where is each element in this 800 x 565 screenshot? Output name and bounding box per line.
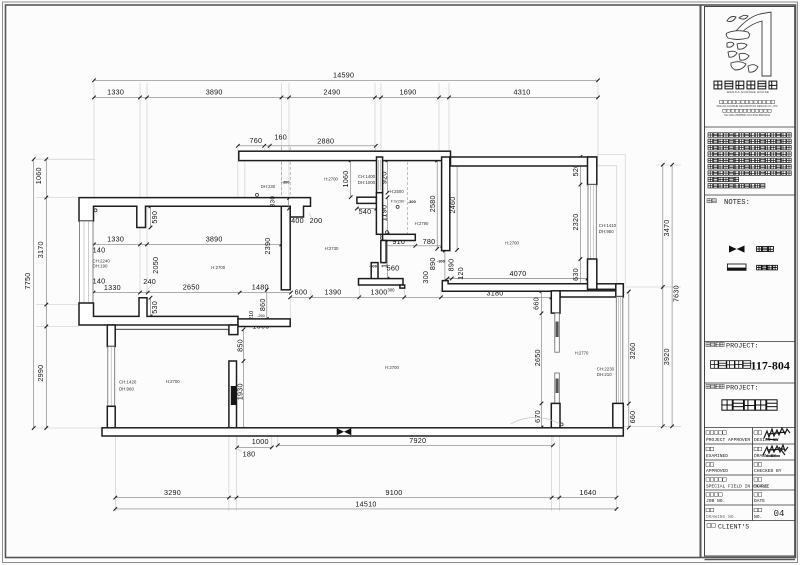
svg-text:7630: 7630 (672, 285, 681, 302)
svg-text:APPROVED: APPROVED (706, 468, 728, 474)
svg-text:3290: 3290 (164, 488, 181, 497)
svg-text:EXAMINED: EXAMINED (706, 453, 728, 459)
svg-text:4310: 4310 (514, 87, 531, 96)
svg-text:PROJECT:: PROJECT: (726, 385, 759, 393)
svg-text:1300: 1300 (371, 288, 388, 297)
svg-text:330: 330 (270, 196, 277, 207)
svg-text:530: 530 (150, 301, 159, 314)
svg-text:TEL:0511-85085551 FAX:0511-85: TEL:0511-85085551 FAX:0511-85091234 (724, 114, 771, 117)
svg-text:04: 04 (774, 509, 785, 519)
svg-text:H:2770: H:2770 (575, 350, 589, 355)
svg-text:CH:2230: CH:2230 (597, 367, 615, 372)
svg-text:560: 560 (387, 264, 400, 273)
svg-text:760: 760 (250, 136, 263, 145)
svg-text:H:2700: H:2700 (385, 365, 399, 370)
svg-text:890: 890 (428, 257, 437, 270)
svg-text:200: 200 (310, 216, 323, 225)
svg-text:H:2700: H:2700 (166, 379, 180, 384)
svg-text:-300: -300 (437, 259, 446, 264)
svg-text:CH:1410: CH:1410 (599, 223, 617, 228)
svg-text:540: 540 (359, 207, 372, 216)
svg-text:140: 140 (93, 246, 106, 255)
svg-text:660: 660 (532, 297, 541, 310)
svg-text:3470: 3470 (662, 220, 671, 237)
svg-text:180: 180 (243, 449, 256, 458)
svg-text:2990: 2990 (36, 365, 45, 382)
svg-text:890: 890 (447, 259, 456, 272)
svg-text:240: 240 (143, 277, 156, 286)
svg-text:660: 660 (628, 411, 637, 424)
svg-text:WANJIA GOODHE DECORATION DESIG: WANJIA GOODHE DECORATION DESIGN CO.,LTD (716, 104, 777, 108)
svg-text:117-804: 117-804 (751, 359, 790, 373)
svg-text:H:2500: H:2500 (390, 189, 404, 194)
svg-text:9100: 9100 (386, 488, 403, 497)
svg-text:DH:230: DH:230 (261, 184, 276, 189)
svg-text:-300: -300 (408, 199, 417, 204)
svg-text:3890: 3890 (206, 87, 223, 96)
svg-text:120: 120 (456, 267, 465, 280)
svg-text:300: 300 (421, 271, 430, 284)
svg-text:1000: 1000 (252, 437, 269, 446)
svg-text:H:2700: H:2700 (211, 265, 225, 270)
svg-text:1640: 1640 (580, 488, 597, 497)
svg-text:CH:1420: CH:1420 (119, 380, 137, 385)
svg-text:2490: 2490 (324, 87, 341, 96)
svg-text:300: 300 (388, 287, 396, 292)
svg-text:3260: 3260 (628, 343, 637, 360)
svg-text:1330: 1330 (107, 234, 124, 243)
svg-text:140: 140 (93, 277, 106, 286)
svg-text:DH:960: DH:960 (119, 387, 134, 392)
svg-text:DH:210: DH:210 (597, 372, 612, 377)
svg-text:2050: 2050 (151, 257, 160, 274)
svg-text:F:0(290: F:0(290 (391, 198, 406, 203)
svg-text:1690: 1690 (400, 87, 417, 96)
svg-text:-260: -260 (257, 314, 265, 318)
svg-text:JOB NO.: JOB NO. (706, 498, 725, 504)
svg-text:1390: 1390 (325, 288, 342, 297)
svg-text:-300: -300 (369, 264, 378, 269)
svg-text:2880: 2880 (317, 136, 334, 145)
svg-text:PROJECT APPROVER: PROJECT APPROVER (706, 437, 750, 443)
svg-text:H:2700: H:2700 (505, 240, 519, 245)
svg-text:14510: 14510 (355, 499, 376, 508)
svg-text:CHECKED BY: CHECKED BY (754, 468, 782, 474)
svg-text:590: 590 (150, 211, 159, 224)
svg-text:3170: 3170 (36, 241, 45, 258)
svg-text:H:2790: H:2790 (415, 221, 429, 226)
svg-text:2320: 2320 (571, 214, 580, 231)
svg-text:160: 160 (274, 133, 287, 142)
svg-text:600: 600 (295, 288, 308, 297)
svg-text:PROJECT:: PROJECT: (726, 343, 759, 351)
svg-text:H:2700: H:2700 (324, 176, 338, 181)
svg-text:7920: 7920 (409, 436, 426, 445)
svg-text:1330: 1330 (107, 87, 124, 96)
svg-text:4070: 4070 (510, 269, 527, 278)
svg-text:DH:950: DH:950 (599, 229, 614, 234)
svg-text:CH:1400: CH:1400 (358, 174, 376, 179)
svg-text:DH:190: DH:190 (93, 264, 108, 269)
svg-text:630: 630 (571, 268, 580, 281)
svg-text:DH:1000: DH:1000 (358, 180, 376, 185)
svg-text:WANJIA GOODHE HOUSE: WANJIA GOODHE HOUSE (727, 90, 769, 94)
svg-text:-300: -300 (281, 180, 290, 185)
svg-text:2650: 2650 (183, 283, 200, 292)
svg-text:2580: 2580 (428, 195, 437, 212)
svg-text:1060: 1060 (341, 171, 350, 188)
svg-text:H:2730: H:2730 (325, 246, 339, 251)
svg-text:850: 850 (235, 339, 244, 352)
svg-text:780: 780 (423, 237, 436, 246)
svg-text:DRAWING NO.: DRAWING NO. (706, 514, 736, 520)
svg-text:14590: 14590 (333, 71, 354, 80)
svg-text:NO.: NO. (754, 514, 762, 520)
svg-text:670: 670 (533, 410, 542, 423)
svg-text:SCALE: SCALE (754, 484, 768, 490)
svg-text:2390: 2390 (263, 238, 272, 255)
svg-text:7750: 7750 (23, 273, 32, 290)
svg-text:1060: 1060 (34, 167, 43, 184)
svg-text:DATE: DATE (754, 498, 765, 504)
svg-text:NOTES:: NOTES: (724, 199, 750, 207)
svg-text:3890: 3890 (206, 234, 223, 243)
svg-text:2650: 2650 (533, 349, 542, 366)
svg-text:CLIENT'S: CLIENT'S (718, 524, 749, 531)
svg-text:860: 860 (258, 298, 267, 311)
svg-text:3920: 3920 (662, 348, 671, 365)
svg-text:1330: 1330 (104, 283, 121, 292)
